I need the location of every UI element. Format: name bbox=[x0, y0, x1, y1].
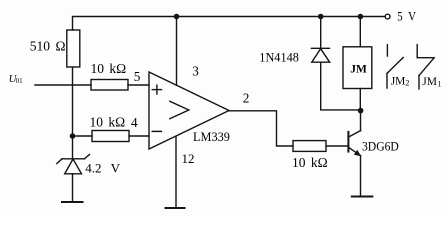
svg-text:5 V: 5 V bbox=[397, 9, 416, 24]
label pin 4 bbox=[131, 115, 138, 130]
label 5 V bbox=[397, 9, 416, 24]
svg-text:10 kΩ: 10 kΩ bbox=[90, 115, 126, 130]
svg-text:12: 12 bbox=[182, 151, 195, 166]
wire R4 to op-amp - input bbox=[129, 135, 149, 137]
svg-text:10 kΩ: 10 kΩ bbox=[292, 155, 328, 170]
ground (zener) bbox=[62, 201, 83, 203]
wire U01 input to resistor R5 bbox=[35, 84, 91, 86]
transistor Q1 3DG6D bbox=[348, 111, 361, 197]
svg-text:4: 4 bbox=[131, 115, 138, 130]
label LM339 bbox=[193, 130, 230, 144]
wire top supply rail bbox=[73, 17, 386, 31]
label 1N4148 bbox=[259, 51, 299, 65]
label 3DG6D bbox=[362, 140, 399, 154]
svg-text:JM: JM bbox=[391, 75, 406, 87]
svg-text:01: 01 bbox=[16, 77, 24, 85]
wire node to resistor R4 bbox=[73, 135, 92, 137]
label JM1 bbox=[422, 76, 441, 88]
relay coil JM bbox=[343, 17, 372, 111]
svg-text:5: 5 bbox=[134, 69, 141, 84]
svg-text:JM: JM bbox=[350, 64, 367, 76]
svg-text:4.2 V: 4.2 V bbox=[85, 161, 120, 176]
resistor 10 kΩ (base) bbox=[293, 141, 326, 152]
resistor 10 kΩ (pin 5) bbox=[91, 80, 128, 91]
svg-text:510 Ω: 510 Ω bbox=[30, 38, 66, 53]
ground (pin 12) bbox=[166, 207, 185, 209]
resistor 10 kΩ (pin 4) bbox=[92, 131, 129, 142]
svg-text:10 kΩ: 10 kΩ bbox=[91, 61, 127, 76]
diode 1N4148 bbox=[311, 17, 329, 63]
label pin 3 bbox=[192, 63, 199, 78]
label pin 2 bbox=[243, 91, 250, 106]
label 10 kΩ (pin4) bbox=[90, 115, 126, 130]
label U01 bbox=[9, 73, 24, 85]
node collector junction bbox=[358, 108, 364, 114]
label 10 kΩ (base) bbox=[292, 155, 328, 170]
node relay rail junction bbox=[358, 14, 364, 20]
contact JM1 bbox=[417, 45, 434, 89]
terminal 5V bbox=[385, 14, 390, 19]
svg-text:3: 3 bbox=[192, 63, 199, 78]
resistor 510 Ω bbox=[67, 30, 80, 67]
svg-text:LM339: LM339 bbox=[193, 130, 230, 144]
svg-text:2: 2 bbox=[405, 79, 409, 88]
ground (emitter) bbox=[352, 196, 373, 198]
op-amp + symbol bbox=[152, 85, 161, 94]
zener diode 4.2V bbox=[57, 155, 90, 203]
wire pin 12 to ground bbox=[175, 136, 177, 208]
wire 510Ω bottom to zener node bbox=[72, 67, 74, 159]
wire R5 to op-amp + input bbox=[128, 84, 149, 86]
node zener junction bbox=[70, 133, 76, 139]
svg-text:2: 2 bbox=[243, 91, 250, 106]
contact JM2 bbox=[387, 45, 403, 88]
wire pin 3 from rail bbox=[176, 17, 178, 86]
label JM2 bbox=[391, 75, 410, 87]
op-amp U1 LM339 triangle bbox=[149, 72, 229, 149]
label JM bbox=[350, 64, 367, 76]
wire diode bottom to collector node bbox=[321, 62, 361, 110]
wire output pin 2 bbox=[229, 111, 293, 146]
label pin 5 bbox=[134, 69, 141, 84]
label 510 Ω bbox=[30, 38, 66, 53]
svg-text:3DG6D: 3DG6D bbox=[362, 140, 399, 154]
node diode rail junction bbox=[318, 14, 324, 20]
svg-text:1N4148: 1N4148 bbox=[259, 51, 299, 65]
svg-text:JM: JM bbox=[422, 76, 437, 88]
label 10 kΩ (pin5) bbox=[91, 61, 127, 76]
label 4.2 V bbox=[85, 161, 120, 176]
op-amp comparator > mark bbox=[170, 101, 189, 118]
svg-text:1: 1 bbox=[437, 80, 441, 89]
label pin 12 bbox=[182, 151, 195, 166]
node pin3 rail junction bbox=[174, 14, 180, 20]
wire base resistor to transistor bbox=[326, 145, 348, 147]
op-amp - symbol bbox=[152, 130, 161, 132]
